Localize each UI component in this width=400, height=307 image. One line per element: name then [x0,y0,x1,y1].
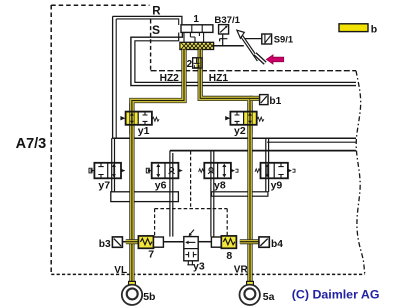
pressure sensor b4 [259,237,269,247]
right cell double arrow [223,166,225,175]
damper 7 (yellow spring element) [138,236,163,248]
svg-text:y7: y7 [98,179,110,191]
dashed box around y3 group: top edge [155,208,228,210]
B37/1 connection stub with damping orifice [220,34,228,46]
pressure sensor b3 [112,237,122,247]
wire line1 (front axle supply, y=138) [112,137,356,139]
y3 pilot arrow [190,230,194,234]
left cell check valve [209,168,213,172]
right cell blocked symbol [143,112,148,124]
damper 8 (yellow spring element) [211,236,236,248]
svg-text:y3: y3 [193,260,205,272]
wire damper7 to y3 [163,241,183,243]
solenoid valve y9 [255,163,295,179]
pedal pushrod arrowhead [237,30,244,38]
wheel brake 5a (front right) [240,285,260,305]
svg-text:VR: VR [234,265,249,276]
wire line3 (valve feed rail, y=150.6) [170,150,356,152]
VL pipe end cap [129,281,136,285]
dashed box around y3 group: right edge [226,209,228,236]
left double-line U loop between y7 and y6 bottoms [111,192,179,202]
right double-line U loop between y8 and y9 bottoms [212,192,268,196]
y8 spring [199,169,204,173]
svg-text:b1: b1 [269,96,281,107]
pedal pad [255,54,265,63]
svg-text:VL: VL [114,265,127,276]
solenoid valve y2 [225,103,264,134]
svg-text:B37/1: B37/1 [214,15,240,26]
svg-text:A7/3: A7/3 [16,136,47,152]
S suction pipe inner line [135,33,356,83]
svg-text:HZ2: HZ2 [160,73,180,84]
yellow pipe spur to sensor b1 [250,96,259,101]
reservoir (component 1) [181,25,213,33]
y7 actuator symbol [89,168,92,173]
solenoid valve y1 [120,103,159,134]
wire pair from line1 down through y7 [111,138,113,192]
A7/3 dashed boundary top edge [51,4,149,6]
svg-text:R: R [152,5,161,17]
svg-text:y6: y6 [155,180,167,192]
torn paper edge (right side) [356,71,365,275]
y1 return spring [152,117,159,121]
svg-text:5b: 5b [143,291,155,303]
legend symbol b (yellow pipe) [339,24,368,32]
y9 spring [255,169,260,173]
brake pedal lever [237,30,265,63]
bottom cell blocked symbol [185,252,196,258]
y6 right wedge [178,169,182,173]
svg-text:5a: 5a [263,291,275,303]
left cell double arrow [266,166,268,175]
solenoid valve y8 [199,163,238,179]
master cylinder pushrod line [214,45,244,47]
svg-text:S: S [152,23,160,37]
right cell blocked [278,163,283,178]
svg-text:b4: b4 [271,239,283,250]
y1 solenoid wedge [120,116,125,120]
svg-text:(C) Daimler AG: (C) Daimler AG [292,287,380,301]
yellow pipe HZ2 circuit: master cylinder to y1 and down to VL wheel [132,50,184,282]
actuation direction arrow (magenta) [266,55,283,64]
svg-text:b: b [371,23,377,35]
y2 return spring [257,117,264,121]
yellow pipe damper 8 to b4 [240,239,259,244]
yellow pipe b3 to damper 7 [126,239,139,244]
wire pair from line3 down through y8 to damper 8 [210,151,212,237]
y6 actuator symbol [146,168,149,173]
dashed centre line between axles [190,151,192,208]
changeover valve y3 [184,230,198,265]
pressure sensor b1 [260,95,268,105]
main block left edge wire (from R pipe down to line1) [112,16,114,138]
svg-text:y1: y1 [138,125,150,137]
tandem master cylinder (hatched) [180,42,214,49]
svg-text:S9/1: S9/1 [274,34,293,45]
yellow pipe HZ1 circuit: master cylinder to y2 and down to VR wheel [200,50,250,282]
wheel brake 5b (front left) [122,285,142,305]
y8 right actuator wedge [231,169,235,173]
svg-text:8: 8 [226,250,232,262]
R return pipe (top, double line) [113,16,182,25]
right cell double arrow [113,166,115,175]
y3 tank stub [187,261,193,265]
solenoid valve y6 [146,163,183,179]
left cell double arrow [131,114,133,122]
wire y3 to damper8 [198,241,211,243]
svg-text:2: 2 [187,59,193,70]
left cell blocked [98,163,103,178]
top cell arrow [187,241,195,243]
svg-text:y8: y8 [214,180,226,192]
wire pair from line3 down through y6 to damper 7 [169,151,171,237]
left cell double arrow [157,166,159,175]
solenoid valve y7 [89,163,125,179]
dashed box around y3 group: left edge [154,209,156,236]
right cell check valve [170,168,174,172]
wire stub sensor b3 [122,241,127,243]
brake pedal link line to switch S9/1 [243,38,262,40]
pressure sensor B37/1 [219,25,229,34]
y9 right actuator wedge [288,169,292,173]
S suction pipe outer line [131,33,356,86]
compensating element 2 body [193,58,202,68]
y7 right wedge [121,169,125,173]
svg-text:7: 7 [148,248,154,260]
wire pair from line1 down through y9 [265,138,267,192]
y2 solenoid wedge [225,116,230,120]
left cell blocked symbol [235,112,240,124]
A7/3 control unit dashed boundary left edge [50,5,52,275]
svg-text:b3: b3 [99,239,111,250]
svg-text:1: 1 [193,14,199,25]
VR pipe end cap [247,281,254,285]
svg-text:HZ1: HZ1 [209,73,229,84]
svg-text:y2: y2 [234,125,246,137]
A7/3 dashed boundary bottom edge [51,273,365,275]
reservoir to cylinder connection stubs [184,32,204,42]
brake light switch S9/1 [262,34,272,44]
svg-text:y9: y9 [271,180,283,192]
element 2 internals redrawn over pipe [196,58,200,68]
right cell double arrow [249,114,251,122]
A7/3 dashed boundary step-down segment right of R label [150,20,152,71]
wire line2 (to rear, y=142) [267,141,356,143]
A7/3 dashed boundary horizontal segment above HZ2/HZ1 [151,70,356,72]
